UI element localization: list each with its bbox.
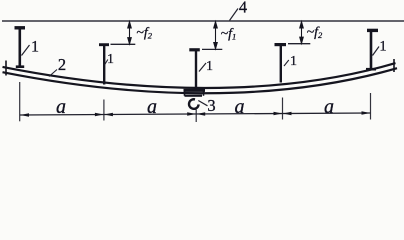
svg-text:1: 1 [206, 59, 213, 74]
label 3 leader [198, 101, 207, 106]
post 3 (center) cap [189, 48, 200, 51]
label 2 leader [49, 70, 57, 77]
svg-text:a: a [56, 96, 66, 118]
rail right end tick [393, 59, 395, 72]
post 4 cap [275, 43, 287, 46]
reference line 4 (taut string datum) [2, 20, 404, 22]
svg-text:~f1: ~f1 [221, 26, 237, 41]
svg-text:3: 3 [207, 96, 215, 115]
svg-text:~f2: ~f2 [307, 25, 323, 40]
post 4 label leader [284, 60, 289, 66]
svg-text:1: 1 [290, 54, 297, 69]
f2 left dimension arrow [128, 22, 132, 44]
svg-text:a: a [235, 96, 245, 118]
post 2 stem [103, 46, 105, 85]
post 3 label leader [199, 63, 206, 72]
post 1 label leader [22, 45, 30, 56]
svg-text:1: 1 [31, 39, 39, 56]
svg-text:1: 1 [379, 39, 386, 55]
svg-text:2: 2 [58, 55, 66, 74]
dimension extension line 2 [103, 100, 105, 121]
post 2 label leader [105, 60, 108, 65]
svg-text:4: 4 [239, 0, 247, 17]
rail left end tick [5, 61, 7, 76]
rail 2: bottom curve [3, 68, 398, 93]
dimension line [20, 113, 371, 115]
svg-text:a: a [324, 96, 334, 118]
dimension extension line right [370, 93, 372, 120]
svg-text:a: a [147, 96, 157, 118]
post 3 extension line [202, 48, 222, 50]
post 3 stem [195, 51, 197, 90]
post 4 extension line [288, 43, 310, 45]
dimension extension line centre [195, 110, 197, 123]
f2 right dimension arrow [300, 22, 304, 44]
dimension extension line left [19, 82, 21, 121]
post 1 foot [16, 65, 24, 68]
post 5 (right) cap [367, 29, 378, 32]
centre bracket bar [185, 95, 203, 97]
rail 2: top curve [3, 63, 396, 88]
post 4 stem [280, 46, 282, 83]
centre clamp side plates [184, 89, 186, 96]
post 2 cap [99, 43, 109, 46]
hook ring 3 [189, 99, 199, 109]
svg-text:1: 1 [107, 51, 114, 66]
centre clamp block (item 3 top plate) [184, 89, 206, 92]
post 1 stem [18, 29, 21, 66]
dim arrowheads [20, 111, 370, 117]
post 5 foot [366, 68, 376, 71]
dimension extension line 4 [282, 98, 284, 120]
svg-text:~f2: ~f2 [136, 25, 152, 40]
post 2 extension line [111, 43, 136, 45]
label 4 leader [230, 9, 239, 21]
post 1 (left) cap [15, 26, 26, 29]
post 5 label leader [373, 47, 380, 56]
f1 dimension arrow [214, 22, 218, 49]
post 5 stem [370, 32, 373, 69]
